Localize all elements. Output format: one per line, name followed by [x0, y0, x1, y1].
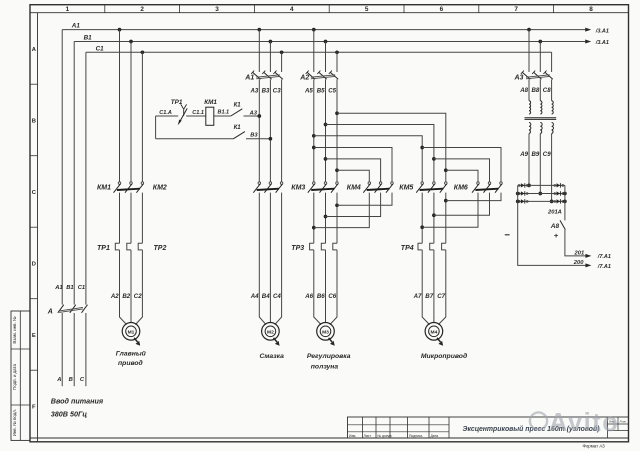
label A2 breaker [299, 75, 309, 82]
node bus tap A2-breaker col2 [324, 40, 328, 44]
rectifier row 3 [518, 199, 565, 204]
svg-text:/3.А1: /3.А1 [595, 28, 609, 34]
label lubrication [259, 353, 284, 360]
contactor KM6 reversing contacts [472, 182, 502, 193]
label KM1 (coil) [204, 99, 217, 106]
thermal relay TP1/TP2 heaters [115, 243, 142, 250]
wire A1-breaker col1 upper [258, 30, 260, 72]
wire M3 col2 lower [325, 250, 327, 318]
wire M4 col1 below contacts [421, 193, 423, 244]
label B1.1 [218, 110, 230, 116]
coil KM1 [206, 107, 214, 125]
wire KM5 col3 to C6 [337, 193, 392, 206]
svg-text:6: 6 [440, 6, 444, 13]
svg-text:КМ3: КМ3 [291, 184, 305, 191]
node KM6R join C7 [444, 199, 448, 203]
svg-text:С1.1: С1.1 [192, 110, 204, 116]
svg-text:Главный: Главный [116, 350, 147, 358]
motor M3 [314, 317, 337, 346]
label A1 breaker [244, 75, 254, 82]
svg-text:А3: А3 [250, 87, 259, 94]
node A3 junction [257, 114, 261, 118]
label A6 B6 C6 [304, 293, 337, 300]
svg-text:А9: А9 [519, 151, 528, 158]
svg-text:КМ5: КМ5 [399, 184, 413, 191]
motor M2 [259, 317, 281, 346]
wire control top segment 2 [186, 115, 206, 117]
wire KM6R col1 to A7 [422, 193, 478, 228]
svg-text:В8: В8 [532, 87, 540, 94]
wire M2 col1 mid [258, 79, 260, 181]
label main drive [116, 350, 147, 368]
svg-text:1: 1 [66, 6, 70, 13]
svg-text:/7.А1: /7.А1 [597, 254, 611, 260]
label micro drive [421, 352, 467, 360]
svg-text:Avito: Avito [549, 409, 619, 437]
label A7 B7 C7 [413, 293, 446, 300]
svg-text:M2: M2 [267, 329, 274, 335]
wire A1-breaker col3 upper [281, 52, 283, 72]
svg-text:Формат А3: Формат А3 [583, 444, 606, 449]
wire M4 col2 below contacts [433, 193, 435, 244]
wire tap A5 to KM5 col3 [314, 148, 392, 182]
label A5 B5 C5 [304, 87, 337, 94]
label KM5 [399, 184, 413, 191]
wire M1 col3 lower [141, 250, 143, 318]
svg-text:ТР1: ТР1 [97, 245, 110, 252]
svg-text:С1: С1 [78, 285, 85, 291]
svg-text:К1: К1 [234, 125, 242, 131]
svg-text:В1: В1 [66, 285, 73, 291]
wire M2 col1 lower [258, 193, 260, 318]
label A3 (control) [249, 110, 258, 116]
svg-text:ТР3: ТР3 [291, 245, 304, 252]
wire M4 col3 lower [445, 250, 447, 318]
svg-text:201А: 201А [547, 209, 562, 215]
svg-text:M4: M4 [431, 329, 438, 335]
label C1 bottom [78, 285, 85, 291]
label TP1 (control) [171, 99, 183, 106]
wire A1-breaker col2 upper [269, 42, 271, 73]
label K1 upper [234, 103, 242, 109]
label minus [505, 234, 510, 236]
svg-text:В4: В4 [262, 293, 270, 300]
wire 201 output [565, 230, 592, 258]
svg-text:С6: С6 [328, 293, 336, 300]
svg-text:201: 201 [574, 250, 585, 256]
svg-text:КМ1: КМ1 [97, 184, 111, 191]
wire M3 col2 mid [325, 79, 327, 181]
disconnect switch A [58, 305, 88, 313]
svg-text:Микропривод: Микропривод [421, 352, 467, 360]
svg-text:С1: С1 [96, 45, 105, 52]
wire M2 col3 mid [281, 79, 283, 181]
svg-text:ползуна: ползуна [311, 363, 339, 370]
wire secondary col2 [539, 134, 541, 194]
node bus tap A1-breaker col1 [257, 28, 261, 32]
svg-text:А8: А8 [519, 87, 528, 94]
wire M1 col2 upper [130, 42, 132, 182]
node bus tap A1-breaker col2 [269, 40, 273, 44]
label plus [554, 231, 559, 240]
node M4 col2 tap [432, 157, 436, 161]
svg-text:В3: В3 [262, 87, 270, 94]
wire M4 col2 lower [433, 250, 435, 318]
svg-text:M1: M1 [128, 329, 135, 335]
svg-text:А1: А1 [244, 75, 254, 82]
svg-text:КМ2: КМ2 [153, 184, 167, 191]
wire minus rail and 200 output [518, 185, 592, 267]
label /7.A1 plus [597, 254, 611, 260]
svg-text:+: + [554, 231, 559, 240]
wire tap B5 to KM5 col2 [326, 159, 381, 182]
node tap B5 upper [324, 123, 328, 127]
label A input [56, 377, 61, 383]
wire M1 col1 lower [119, 250, 121, 318]
svg-text:ТР4: ТР4 [401, 245, 414, 252]
wire M3 col1 lower [313, 250, 315, 318]
wire KM5 col2 to B6 [326, 193, 381, 217]
wire bus C1 (phase C) [86, 51, 552, 53]
svg-text:КМ6: КМ6 [454, 184, 468, 191]
contactor KM3 contacts [253, 182, 283, 193]
wire M2 col2 lower [269, 193, 271, 318]
svg-text:7: 7 [514, 6, 518, 13]
label B input [69, 377, 73, 383]
node rectifier col2 [538, 192, 542, 196]
wire M1 col3 mid [141, 193, 143, 244]
label KM2 [153, 184, 167, 191]
svg-text:А6: А6 [304, 293, 313, 300]
wire A3 col2 upper [539, 42, 541, 73]
node tap A5 upper [312, 134, 316, 138]
wire control bottom segment 1 [156, 138, 234, 140]
svg-text:С2: С2 [134, 293, 142, 300]
thermal contact TP1 (control) [178, 104, 187, 125]
wire M1 col1 upper [119, 30, 121, 182]
svg-text:D: D [32, 261, 36, 267]
svg-text:В7: В7 [425, 293, 433, 300]
svg-text:С7: С7 [437, 293, 445, 300]
svg-text:F: F [32, 404, 36, 410]
wire A3 col1 upper [528, 30, 530, 72]
svg-text:С3: С3 [273, 87, 281, 94]
svg-text:Подпись: Подпись [409, 434, 423, 438]
node bus tap M1 col2 [129, 40, 133, 44]
wire phase C input [85, 313, 87, 386]
node B3 junction [269, 137, 273, 141]
node tap A5 lower [312, 146, 316, 150]
label A1 bottom [54, 285, 62, 291]
label TP4 [401, 245, 414, 252]
wire control left [155, 116, 157, 139]
motor M1 [120, 317, 143, 346]
node M4 col3 tap [444, 168, 448, 172]
wire transformer primary lead col2 [539, 79, 541, 100]
circuit breaker A1 [251, 71, 283, 80]
svg-text:А: А [47, 309, 53, 316]
svg-text:Смазка: Смазка [259, 353, 284, 360]
svg-text:5: 5 [365, 6, 369, 13]
contactor KM1/KM2 contacts [114, 182, 144, 193]
svg-text:А2: А2 [110, 293, 119, 300]
svg-text:/7.А1: /7.А1 [597, 264, 611, 270]
svg-text:В2: В2 [122, 293, 130, 300]
label A4 B4 C4 [250, 293, 282, 300]
circuit breaker A3 [521, 71, 553, 80]
svg-text:А1: А1 [54, 285, 62, 291]
wire phase B input [73, 313, 75, 386]
node bus tap M1 col1 [118, 28, 122, 32]
thermal relay TP4 heaters [418, 243, 446, 250]
label B1 bottom [66, 285, 73, 291]
node plus rail row3 [563, 200, 567, 204]
node minus rail row3 [516, 200, 520, 204]
wire M1 col2 mid [130, 193, 132, 244]
wire bus B1 (phase B) [74, 40, 591, 44]
svg-text:В1.1: В1.1 [218, 110, 230, 116]
wire M4 col1 tap to KM6R col3 [422, 148, 501, 182]
label C input [80, 377, 85, 383]
svg-text:В3: В3 [250, 132, 258, 138]
wire bus A1 (phase A) [62, 28, 591, 32]
node plus rail row2 [563, 192, 567, 196]
svg-text:Подп. и дата: Подп. и дата [12, 364, 17, 390]
node tap C5 lower [335, 168, 339, 172]
svg-text:С9: С9 [543, 151, 551, 158]
label A1 [71, 23, 81, 30]
svg-text:К1: К1 [234, 103, 242, 109]
svg-text:А: А [56, 377, 61, 383]
label B3 (control) [250, 132, 258, 138]
node bus tap A3 col2 [538, 40, 542, 44]
svg-text:В: В [69, 377, 73, 383]
wire M3 col1 below contacts [313, 193, 315, 244]
wire control bottom segment 2 [246, 138, 270, 140]
label /3.A1 top [595, 28, 609, 34]
label C1 [96, 45, 105, 52]
label TP2 [154, 245, 167, 252]
contact K1 upper [231, 109, 243, 116]
wire A2-breaker col1 upper [313, 30, 315, 72]
label B1 [84, 35, 93, 42]
wire phase C left drop [85, 52, 87, 304]
wire control top segment 4 [244, 115, 260, 117]
svg-text:КМ4: КМ4 [347, 184, 361, 191]
label K1 lower [234, 125, 242, 131]
wire M4 col3 below contacts [445, 193, 447, 244]
svg-text:ТР1: ТР1 [171, 99, 183, 106]
svg-text:Инв. № подл.: Инв. № подл. [12, 409, 17, 436]
svg-text:№ докум.: № докум. [378, 434, 393, 438]
label A8 B8 C8 [519, 87, 551, 94]
rectifier row 1 [518, 183, 565, 188]
svg-text:С5: С5 [328, 87, 336, 94]
label 200 [573, 260, 584, 266]
svg-text:А3: А3 [249, 110, 258, 116]
wire secondary col3 [551, 134, 553, 202]
svg-text:Л-ов: Л-ов [620, 420, 627, 424]
svg-text:А8: А8 [550, 223, 560, 230]
svg-text:Дата: Дата [431, 434, 439, 438]
wire tap C5 to KM5 col1 [337, 170, 369, 182]
label A3 breaker [514, 75, 524, 82]
node tap C5 upper [335, 111, 339, 115]
contactor KM6 contacts [416, 182, 447, 193]
label TP3 [291, 245, 304, 252]
node M4 col1 tap [420, 146, 424, 150]
rectifier row 2 [518, 191, 565, 196]
node bus tap A2-breaker col1 [312, 28, 316, 32]
wire phase A left drop [61, 30, 63, 305]
contactor KM4 contacts [308, 182, 338, 193]
label 201 [574, 250, 585, 256]
label C1.A [159, 110, 172, 116]
wire M3 col1 mid [313, 79, 315, 181]
svg-text:А2: А2 [299, 75, 309, 82]
wire tap B5 to M4 col2 [326, 125, 434, 182]
svg-text:ТР2: ТР2 [154, 245, 167, 252]
motor M4 [422, 317, 446, 346]
wire M3 col2 below contacts [325, 193, 327, 244]
wire phase A input [61, 313, 63, 386]
transformer T1 windings and core [525, 101, 557, 134]
svg-text:привод: привод [118, 359, 143, 367]
label A9 B9 C9 [519, 151, 551, 158]
wire KM6R col2 to B7 [434, 193, 490, 216]
wire M3 col3 lower [336, 250, 338, 318]
node bus tap A1-breaker col3 [280, 50, 284, 54]
node rectifier col3 [550, 200, 554, 204]
svg-text:А4: А4 [250, 293, 259, 300]
label 201A [547, 209, 562, 215]
svg-text:Регулировка: Регулировка [307, 353, 351, 360]
svg-text:В5: В5 [317, 87, 325, 94]
svg-text:КМ1: КМ1 [204, 99, 217, 106]
svg-text:А7: А7 [413, 293, 422, 300]
svg-text:/3.А1: /3.А1 [595, 40, 609, 46]
wire M2 col2 mid [269, 79, 271, 181]
wire M2 col3 lower [281, 193, 283, 318]
label A3 B3 C3 [250, 87, 282, 94]
wire M4 col1 lower [421, 250, 423, 318]
label KM4 [347, 184, 361, 191]
wire plus rail upper [564, 185, 566, 220]
label KM6 [454, 184, 468, 191]
svg-text:Изм.: Изм. [349, 434, 356, 438]
node rectifier col1 [527, 184, 531, 188]
node bus tap M1 col3 [141, 50, 145, 54]
svg-text:С8: С8 [543, 87, 551, 94]
svg-text:B: B [32, 118, 36, 124]
svg-text:2: 2 [140, 6, 144, 13]
wire M4 col2 tap to KM6R col2 [434, 159, 490, 182]
node tap B5 lower [324, 157, 328, 161]
wire M1 col1 mid [119, 193, 121, 244]
label KM1 [97, 184, 111, 191]
wire transformer primary lead col1 [528, 79, 530, 100]
wire phase B left drop [73, 42, 75, 305]
svg-text:Взам. инв. №: Взам. инв. № [12, 316, 17, 343]
node KM5 join A6 [312, 226, 316, 230]
wire control top segment 1 [156, 115, 179, 117]
svg-text:А5: А5 [304, 87, 313, 94]
label A2 B2 C2 [110, 293, 142, 300]
wire transformer primary lead col3 [551, 79, 553, 100]
thermal relay TP3 heaters [310, 243, 337, 250]
contact K1 lower [234, 132, 245, 139]
svg-text:3: 3 [215, 6, 219, 13]
label TP1 [97, 245, 110, 252]
wire tap C5 to M4 col3 [337, 113, 446, 182]
node bus tap A2-breaker col3 [335, 50, 339, 54]
wire A2-breaker col2 upper [325, 42, 327, 73]
wire tap A5 to M4 col1 [314, 136, 422, 182]
svg-text:А1: А1 [71, 23, 81, 30]
label A8 (fuse) [550, 223, 560, 230]
wire KM6R col3 to C7 [446, 193, 501, 201]
fuse-switch A8 [560, 220, 565, 229]
svg-text:380В 50Гц: 380В 50Гц [51, 410, 88, 419]
wire M4 col3 tap to KM6R col1 [446, 170, 478, 182]
label A (switch) [47, 309, 53, 316]
wire M1 col3 upper [141, 52, 143, 182]
wire M3 col3 below contacts [336, 193, 338, 244]
node KM5 join B6 [324, 215, 328, 219]
svg-text:Ввод питания: Ввод питания [51, 397, 104, 406]
wire KM5 col1 to A6 [314, 193, 370, 228]
label /7.A1 minus [597, 264, 611, 270]
wire M3 col3 mid [336, 79, 338, 181]
label slide adjust [307, 353, 351, 370]
wire C1 to A3 col3 [551, 52, 553, 72]
wire secondary col1 [528, 134, 530, 186]
svg-text:В6: В6 [317, 293, 325, 300]
svg-text:Лист: Лист [364, 434, 372, 438]
circuit breaker A2 [306, 71, 339, 80]
contactor KM5 contacts [363, 182, 393, 193]
svg-text:В1: В1 [84, 35, 93, 42]
wire A2-breaker col3 upper [336, 52, 338, 72]
svg-text:4: 4 [290, 6, 294, 13]
label C1.1 [192, 110, 204, 116]
label /3.A1 bottom [595, 40, 609, 46]
node KM6R join A7 [420, 225, 424, 229]
svg-text:8: 8 [589, 6, 593, 13]
svg-text:А3: А3 [514, 75, 524, 82]
wire control top segment 3 [214, 115, 231, 117]
node minus rail row2 [516, 192, 520, 196]
svg-text:С4: С4 [273, 293, 281, 300]
svg-text:M3: M3 [322, 329, 329, 335]
svg-text:В9: В9 [532, 151, 540, 158]
label power input [51, 397, 104, 419]
svg-text:С1.А: С1.А [159, 110, 172, 116]
svg-text:200: 200 [573, 260, 584, 266]
wire M1 col2 lower [130, 250, 132, 318]
label KM3 [291, 184, 305, 191]
node KM6R join B7 [432, 213, 436, 217]
svg-text:E: E [32, 333, 36, 339]
node bus tap A3 col1 [527, 28, 531, 32]
node KM5 join C6 [335, 203, 339, 207]
